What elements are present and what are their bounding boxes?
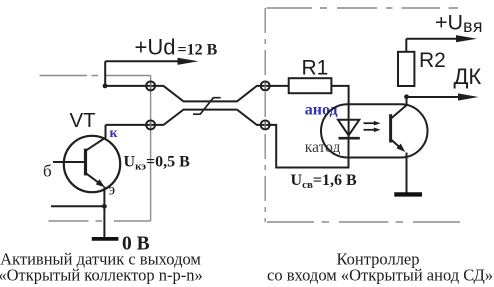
- wire: phototransistor collector: [391, 97, 407, 119]
- terminal X2 (sensor output): [146, 120, 155, 129]
- controller block border bottom (dash-dot): [267, 221, 460, 223]
- sensor block border bottom (dash-dot): [49, 220, 151, 222]
- wire: R1 to LED anode: [331, 86, 349, 138]
- terminal X3 (controller +12V): [261, 81, 270, 90]
- ground: controller bar: [394, 192, 422, 196]
- svg-text:VT: VT: [70, 109, 97, 132]
- terminal X1 (sensor +12V): [146, 81, 155, 90]
- wire: emitter down lead: [103, 187, 105, 238]
- phototransistor base bar: [389, 114, 392, 142]
- svg-text:R2: R2: [419, 49, 446, 72]
- wire: +Ud riser: [104, 61, 106, 86]
- transistor VT body: [64, 136, 120, 192]
- controller block border left (dash-dot): [264, 8, 266, 222]
- optocoupler U1 body: [321, 104, 428, 157]
- sensor block border top (dash-dot): [40, 75, 151, 77]
- resistor R1: [289, 78, 332, 93]
- resistor R2: [398, 52, 414, 86]
- junction: +12V corner: [103, 84, 108, 89]
- svg-text:Uсв=1,6 В: Uсв=1,6 В: [291, 172, 358, 191]
- LED D1 cathode bar: [339, 137, 360, 140]
- junction: emitter node: [102, 204, 107, 209]
- svg-text:R1: R1: [302, 57, 329, 80]
- light arrow 1: [364, 121, 381, 126]
- wire: VT emitter with arrow: [86, 173, 105, 187]
- svg-text:к: к: [110, 126, 119, 141]
- wire: R2 to +U: [405, 39, 407, 52]
- svg-text:+Uвя: +Uвя: [435, 11, 483, 37]
- transistor VT base bar: [84, 149, 87, 176]
- ground: sensor 0V bar: [92, 237, 119, 241]
- light arrow 2: [364, 128, 381, 133]
- svg-text:со входом «Открытый анод СД»: со входом «Открытый анод СД»: [267, 266, 493, 285]
- twisted pair marker: [193, 98, 221, 115]
- LED D1 triangle: [338, 120, 359, 136]
- svg-text:э: э: [108, 182, 115, 199]
- svg-text:«Открытый коллектор n-p-n»: «Открытый коллектор n-p-n»: [0, 266, 203, 285]
- svg-text:+Ud: +Ud: [135, 35, 176, 60]
- junction: R2/collector/ДК node: [404, 94, 409, 99]
- wire: signal line (twisted pair lower) and cathode return: [106, 110, 349, 168]
- sensor block border right: [150, 76, 152, 222]
- wire: sensor internal stub: [51, 205, 104, 207]
- +Ud supply arrow: [105, 58, 198, 65]
- ДК output arrow: [407, 93, 479, 100]
- svg-text:б: б: [43, 162, 52, 181]
- +Uвя supply arrow: [406, 35, 477, 42]
- wire: VT collector lead: [86, 125, 106, 151]
- svg-text:ДК: ДК: [454, 64, 482, 89]
- wire: VT base lead: [53, 161, 84, 163]
- wire: +12V line to controller (twisted pair upper): [105, 86, 289, 102]
- controller block border top (dash-dot): [267, 7, 459, 9]
- svg-text:=12 В: =12 В: [178, 42, 218, 59]
- terminal X4 (controller input): [261, 120, 270, 129]
- wire: emitter to ground: [406, 153, 408, 193]
- svg-text:Uкэ=0,5 В: Uкэ=0,5 В: [124, 154, 191, 173]
- wire: phototransistor emitter with arrow: [391, 140, 405, 153]
